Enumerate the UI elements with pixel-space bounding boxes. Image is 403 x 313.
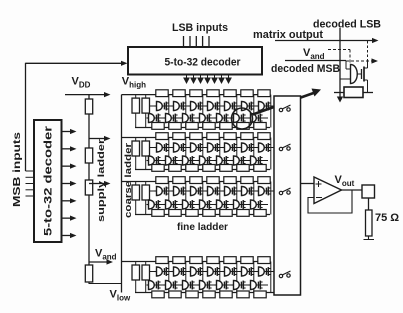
wire pad to 75 ohm resistor xyxy=(368,198,370,210)
fine ladder resistors row (bottom, group 4) xyxy=(152,291,266,298)
fine ladder resistors row (top, group 4) xyxy=(156,257,270,264)
LSB input lines (5 ticks into decoder top) xyxy=(184,36,210,47)
group 1 cell row 1 wire (to switch column) xyxy=(150,105,274,107)
matrix cells row 1 group 1 (AND gate + transistor) xyxy=(155,102,271,111)
group 1 bottom rail wire xyxy=(135,127,270,129)
output pad box xyxy=(362,185,375,198)
group 2 cell row 2 wire xyxy=(150,160,268,162)
group 3 column wires xyxy=(169,182,271,215)
group 4 cell row 2 wire xyxy=(150,284,268,286)
svg-text:matrix output: matrix output xyxy=(253,29,323,41)
fine ladder resistors row (bottom, group 1) xyxy=(152,123,266,130)
resistor R6 (detail fine ladder segment) xyxy=(344,87,363,98)
VDD rail wire with arrow to Vhigh xyxy=(65,92,111,97)
group 2 bottom rail wire xyxy=(135,169,270,171)
op-amp output wire xyxy=(342,189,363,191)
decoder U2 output arrows (7 down triangles into matrix) xyxy=(183,75,232,85)
MSB input bus vertical wire xyxy=(25,63,27,171)
decoded MSB wire xyxy=(285,60,346,62)
group 2 top rail wire xyxy=(122,137,271,139)
wire right of R6 xyxy=(363,92,373,94)
matrix cells row 2 group 4 (AND gate + transistor) xyxy=(147,281,263,290)
ground tick below 75 ohm resistor xyxy=(364,236,375,240)
resistor R4 (Vand leg) xyxy=(85,265,92,282)
transistor Q1 (detail) xyxy=(357,61,367,93)
fine ladder resistors row (top, group 2) xyxy=(156,133,270,140)
wire left of R6 xyxy=(334,92,344,94)
matrix cells row 1 group 4 (AND gate + transistor) xyxy=(155,267,271,276)
switch S2 xyxy=(279,147,282,150)
supply ladder wire xyxy=(88,95,90,265)
matrix cells row 2 group 2 (AND gate + transistor) xyxy=(147,156,263,165)
resistor R2 (supply ladder) xyxy=(85,148,92,163)
group 4 bottom rail wire xyxy=(135,292,274,294)
Vand tap arrow xyxy=(89,259,113,264)
group 3 top rail wire xyxy=(122,181,271,183)
matrix cells row 1 group 3 (AND gate + transistor) xyxy=(155,187,271,196)
svg-text:decoded MSB: decoded MSB xyxy=(271,63,340,75)
group 2 cell row 1 wire (to switch column) xyxy=(150,147,274,149)
switch S3 xyxy=(279,191,282,194)
MSB input stubs (5) xyxy=(26,171,35,196)
supply ladder tap 2 arrow xyxy=(89,181,111,186)
fine ladder resistors row (bottom, group 2) xyxy=(152,165,266,172)
Vand dashed wire into AND gate xyxy=(328,50,350,65)
svg-text:Vand: Vand xyxy=(303,47,325,61)
svg-text:Vhigh: Vhigh xyxy=(122,76,146,90)
op-amp + symbol xyxy=(316,181,322,187)
group 4 cell row 1 wire (to switch column) xyxy=(150,271,274,273)
matrix left vertical wire xyxy=(121,95,123,293)
coarse ladder resistor pair group 4 xyxy=(132,262,150,293)
dashed wire to second arrow xyxy=(346,58,378,63)
decoder U1 box (MSB 5-to-32 decoder) xyxy=(34,120,62,242)
svg-text:5-to-32 decoder: 5-to-32 decoder xyxy=(43,125,55,236)
resistor R3 (supply ladder) xyxy=(85,180,92,195)
supply ladder tap 1 arrow xyxy=(89,136,111,141)
fine ladder resistors row (top, group 3) xyxy=(156,177,270,184)
switch column box xyxy=(274,96,301,295)
svg-text:decoded LSB: decoded LSB xyxy=(313,19,381,31)
coarse ladder resistor pair group 2 xyxy=(132,138,150,170)
op-amp - symbol xyxy=(316,197,322,199)
group 3 cell row 1 wire (to switch column) xyxy=(150,190,274,192)
fine ladder resistors row (top, group 1) xyxy=(156,90,270,97)
group 4 top rail wire xyxy=(122,261,271,263)
svg-text:Vand: Vand xyxy=(95,248,117,262)
svg-text:VDD: VDD xyxy=(72,76,91,90)
matrix cells row 2 group 1 (AND gate + transistor) xyxy=(147,114,263,123)
matrix output wire with arrow xyxy=(275,38,379,43)
svg-text:MSB inputs: MSB inputs xyxy=(12,131,23,207)
fine ladder resistors row (bottom, group 3) xyxy=(152,210,266,217)
dashed wire from matrix output down xyxy=(367,41,369,61)
group 1 column wires xyxy=(169,95,271,128)
matrix cells row 1 group 2 (AND gate + transistor) xyxy=(155,143,271,152)
svg-text:5-to-32 decoder: 5-to-32 decoder xyxy=(165,57,242,69)
op-amp feedback wire xyxy=(308,190,352,213)
group 2 column wires xyxy=(169,138,271,170)
svg-text:fine ladder: fine ladder xyxy=(177,221,228,233)
svg-text:Vlow: Vlow xyxy=(110,289,131,303)
group 1 top rail wire xyxy=(122,94,271,96)
decoded LSB vertical wire with down arrow xyxy=(337,28,343,103)
AND gate U4 (detail) xyxy=(341,69,351,79)
svg-text:Vout: Vout xyxy=(335,174,355,188)
wire R4 bottom to matrix left line xyxy=(89,282,122,284)
resistor R1 (supply ladder) xyxy=(85,99,92,114)
switch S1 xyxy=(279,108,282,111)
op-amp U3 triangle xyxy=(314,177,342,204)
svg-text:75 Ω: 75 Ω xyxy=(375,212,399,224)
coarse ladder resistor pair group 3 xyxy=(132,182,150,215)
group 4 column wires xyxy=(169,262,271,293)
resistor R5 (75 ohm load) xyxy=(366,210,373,236)
group 1 cell row 2 wire xyxy=(150,117,268,119)
wire from MSB bus to LSB decoder with arrowhead xyxy=(26,61,128,66)
svg-text:LSB inputs: LSB inputs xyxy=(172,22,228,34)
callout arrow from circled cell to detail xyxy=(253,89,322,115)
decoder U2 box (LSB 5-to-32 decoder) xyxy=(128,47,262,75)
matrix cells row 2 group 3 (AND gate + transistor) xyxy=(147,200,263,209)
svg-text:supply ladder: supply ladder xyxy=(96,139,107,222)
highlight circle around matrix cell xyxy=(232,108,253,129)
group 3 cell row 2 wire xyxy=(150,204,268,206)
wire switch box to op-amp + input xyxy=(301,183,315,185)
decoder U1 output arrows (7) xyxy=(62,129,77,238)
switch S4 xyxy=(279,274,282,277)
group 3 bottom rail wire xyxy=(135,214,270,216)
coarse ladder resistor pair group 1 xyxy=(132,95,150,128)
